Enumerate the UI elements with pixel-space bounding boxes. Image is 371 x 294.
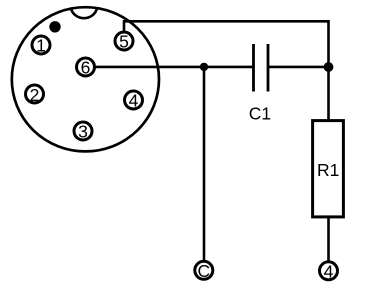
svg-text:5: 5 (119, 32, 129, 52)
svg-text:C: C (197, 261, 210, 281)
svg-text:4: 4 (324, 262, 334, 282)
svg-text:R1: R1 (317, 160, 339, 180)
svg-text:2: 2 (30, 85, 40, 105)
svg-text:4: 4 (129, 91, 139, 111)
svg-text:6: 6 (81, 58, 91, 78)
svg-text:C1: C1 (249, 104, 271, 124)
svg-text:1: 1 (36, 36, 46, 56)
svg-text:3: 3 (78, 122, 88, 142)
